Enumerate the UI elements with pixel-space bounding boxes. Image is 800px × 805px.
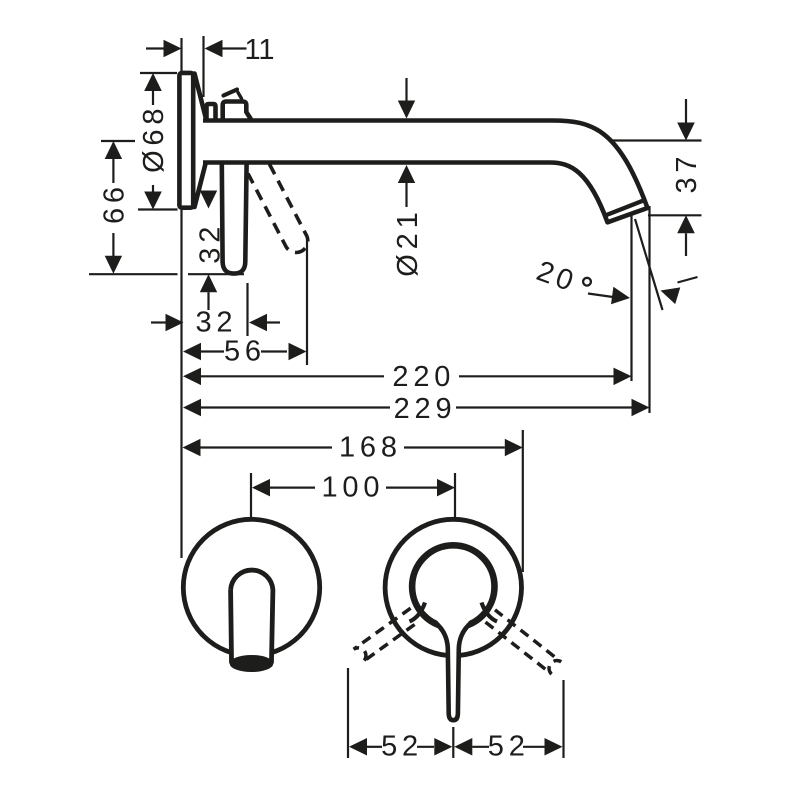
svg-text:52: 52 <box>488 731 530 763</box>
svg-text:32: 32 <box>195 222 227 264</box>
svg-text:11: 11 <box>244 34 274 66</box>
svg-text:52: 52 <box>381 731 423 763</box>
svg-text:66: 66 <box>99 182 131 224</box>
svg-text:168: 168 <box>339 432 402 464</box>
svg-text:32: 32 <box>195 307 237 339</box>
svg-text:Ø68: Ø68 <box>138 104 170 173</box>
svg-text:229: 229 <box>394 393 457 425</box>
svg-text:220: 220 <box>392 361 455 393</box>
svg-text:56: 56 <box>224 336 266 368</box>
svg-text:Ø21: Ø21 <box>392 207 424 276</box>
svg-text:100: 100 <box>322 472 385 504</box>
svg-text:37: 37 <box>671 152 703 194</box>
